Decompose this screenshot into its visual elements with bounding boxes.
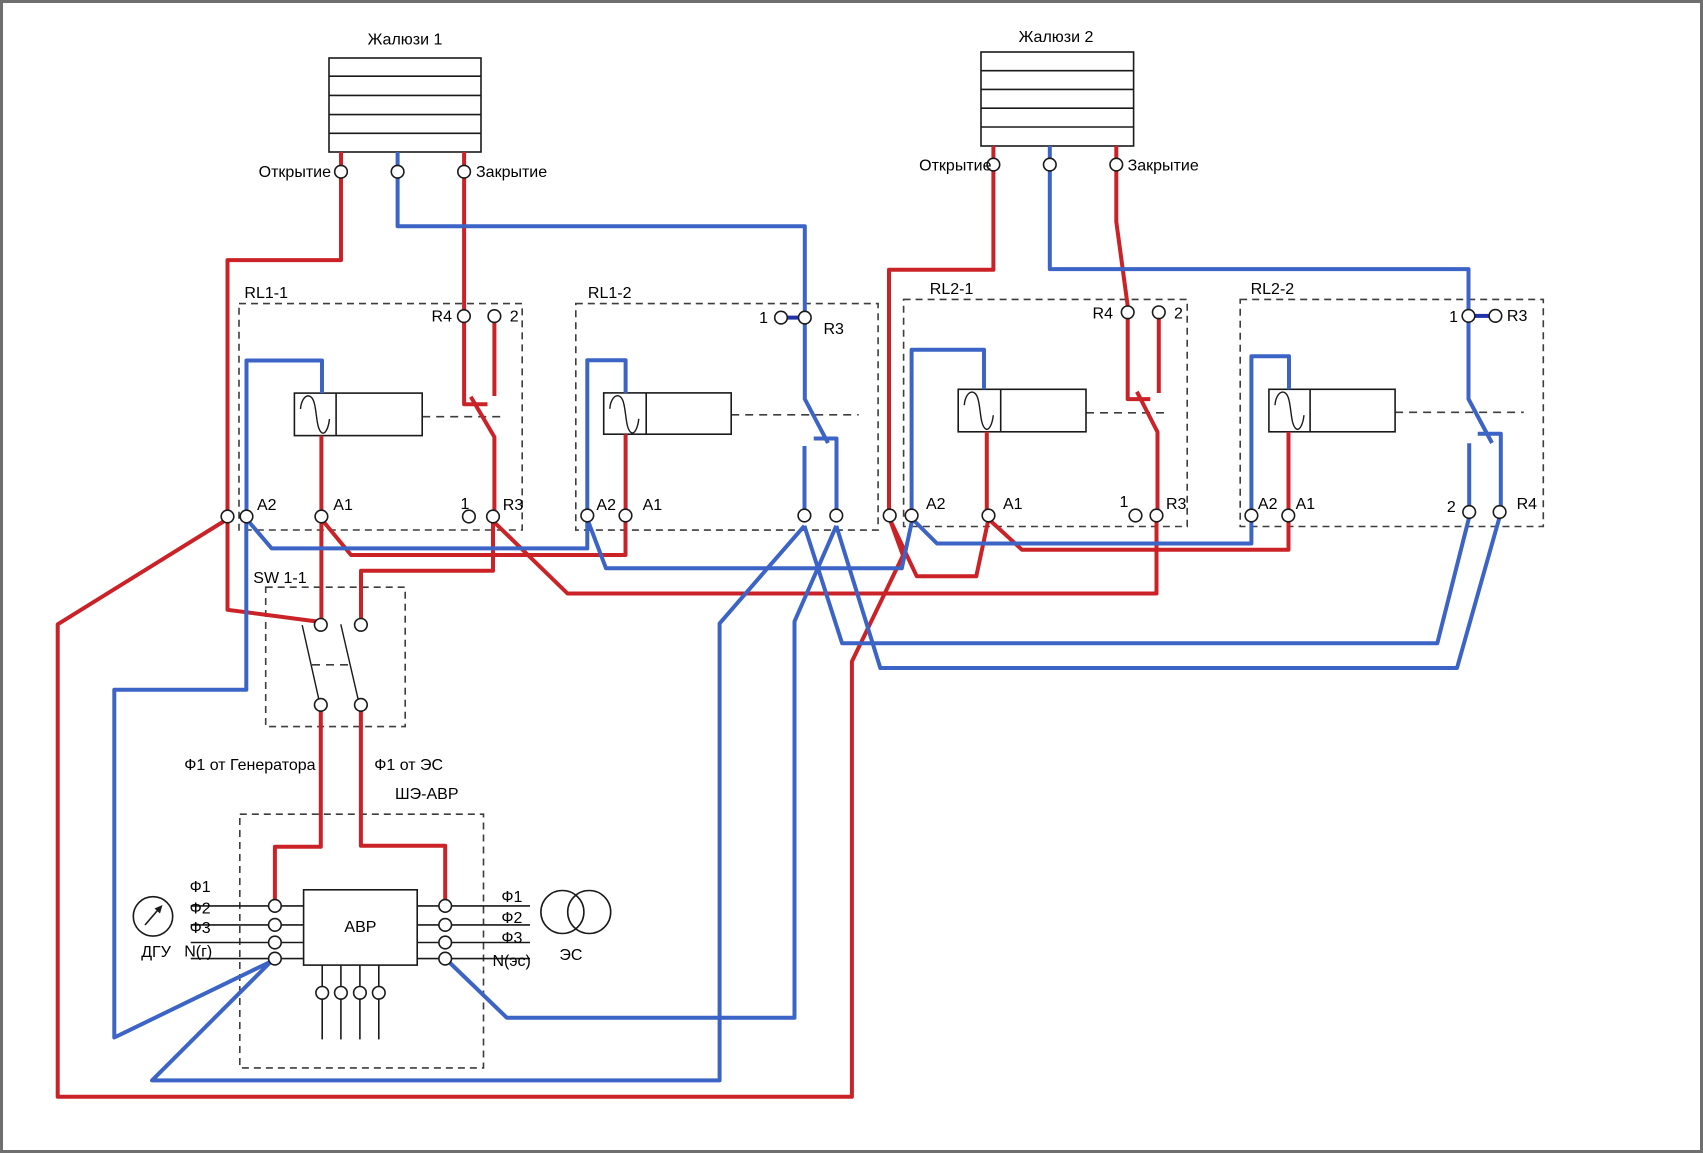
svg-text:Ф3: Ф3 [501, 930, 522, 947]
svg-text:2: 2 [510, 309, 519, 326]
svg-text:1: 1 [1449, 309, 1458, 326]
svg-text:Закрытие: Закрытие [476, 164, 547, 181]
svg-text:Ф2: Ф2 [190, 901, 211, 918]
svg-text:A1: A1 [643, 497, 663, 514]
svg-text:Открытие: Открытие [919, 158, 991, 175]
svg-text:2: 2 [1174, 306, 1183, 323]
svg-text:1: 1 [1120, 494, 1129, 511]
svg-text:1: 1 [461, 496, 470, 513]
svg-text:SW 1-1: SW 1-1 [253, 570, 306, 587]
svg-text:Закрытие: Закрытие [1128, 158, 1199, 175]
svg-text:Ф3: Ф3 [190, 920, 211, 937]
svg-text:Ф2: Ф2 [501, 910, 522, 927]
svg-text:A2: A2 [1258, 496, 1278, 513]
svg-text:Ф1: Ф1 [190, 879, 211, 896]
svg-text:RL2-2: RL2-2 [1251, 281, 1295, 298]
svg-text:Жалюзи 2: Жалюзи 2 [1019, 29, 1094, 46]
svg-text:RL1-1: RL1-1 [244, 285, 288, 302]
svg-text:R4: R4 [432, 309, 453, 326]
svg-text:Ф1 от Генератора: Ф1 от Генератора [184, 757, 315, 774]
svg-text:A2: A2 [257, 497, 277, 514]
svg-text:R3: R3 [1166, 496, 1187, 513]
svg-text:A2: A2 [596, 497, 616, 514]
svg-text:ЭС: ЭС [559, 947, 582, 964]
svg-text:Ф1 от ЭС: Ф1 от ЭС [374, 757, 443, 774]
svg-text:RL2-1: RL2-1 [930, 281, 974, 298]
svg-text:ДГУ: ДГУ [141, 944, 172, 961]
svg-text:RL1-2: RL1-2 [588, 285, 632, 302]
svg-text:A1: A1 [333, 497, 353, 514]
svg-text:Открытие: Открытие [259, 164, 331, 181]
svg-text:2: 2 [1447, 499, 1456, 516]
svg-text:Жалюзи 1: Жалюзи 1 [368, 32, 443, 49]
svg-text:A2: A2 [926, 496, 946, 513]
svg-text:АВР: АВР [344, 919, 376, 936]
svg-text:N(г): N(г) [184, 944, 212, 961]
svg-text:R4: R4 [1517, 496, 1538, 513]
svg-text:A1: A1 [1003, 496, 1023, 513]
svg-text:R4: R4 [1093, 306, 1114, 323]
svg-text:R3: R3 [503, 497, 524, 514]
svg-text:R3: R3 [1507, 308, 1528, 325]
svg-text:1: 1 [759, 310, 768, 327]
svg-text:N(эс): N(эс) [493, 953, 531, 970]
svg-text:R3: R3 [824, 321, 845, 338]
svg-text:ШЭ-АВР: ШЭ-АВР [395, 786, 459, 803]
svg-text:A1: A1 [1296, 496, 1316, 513]
svg-text:Ф1: Ф1 [501, 889, 522, 906]
